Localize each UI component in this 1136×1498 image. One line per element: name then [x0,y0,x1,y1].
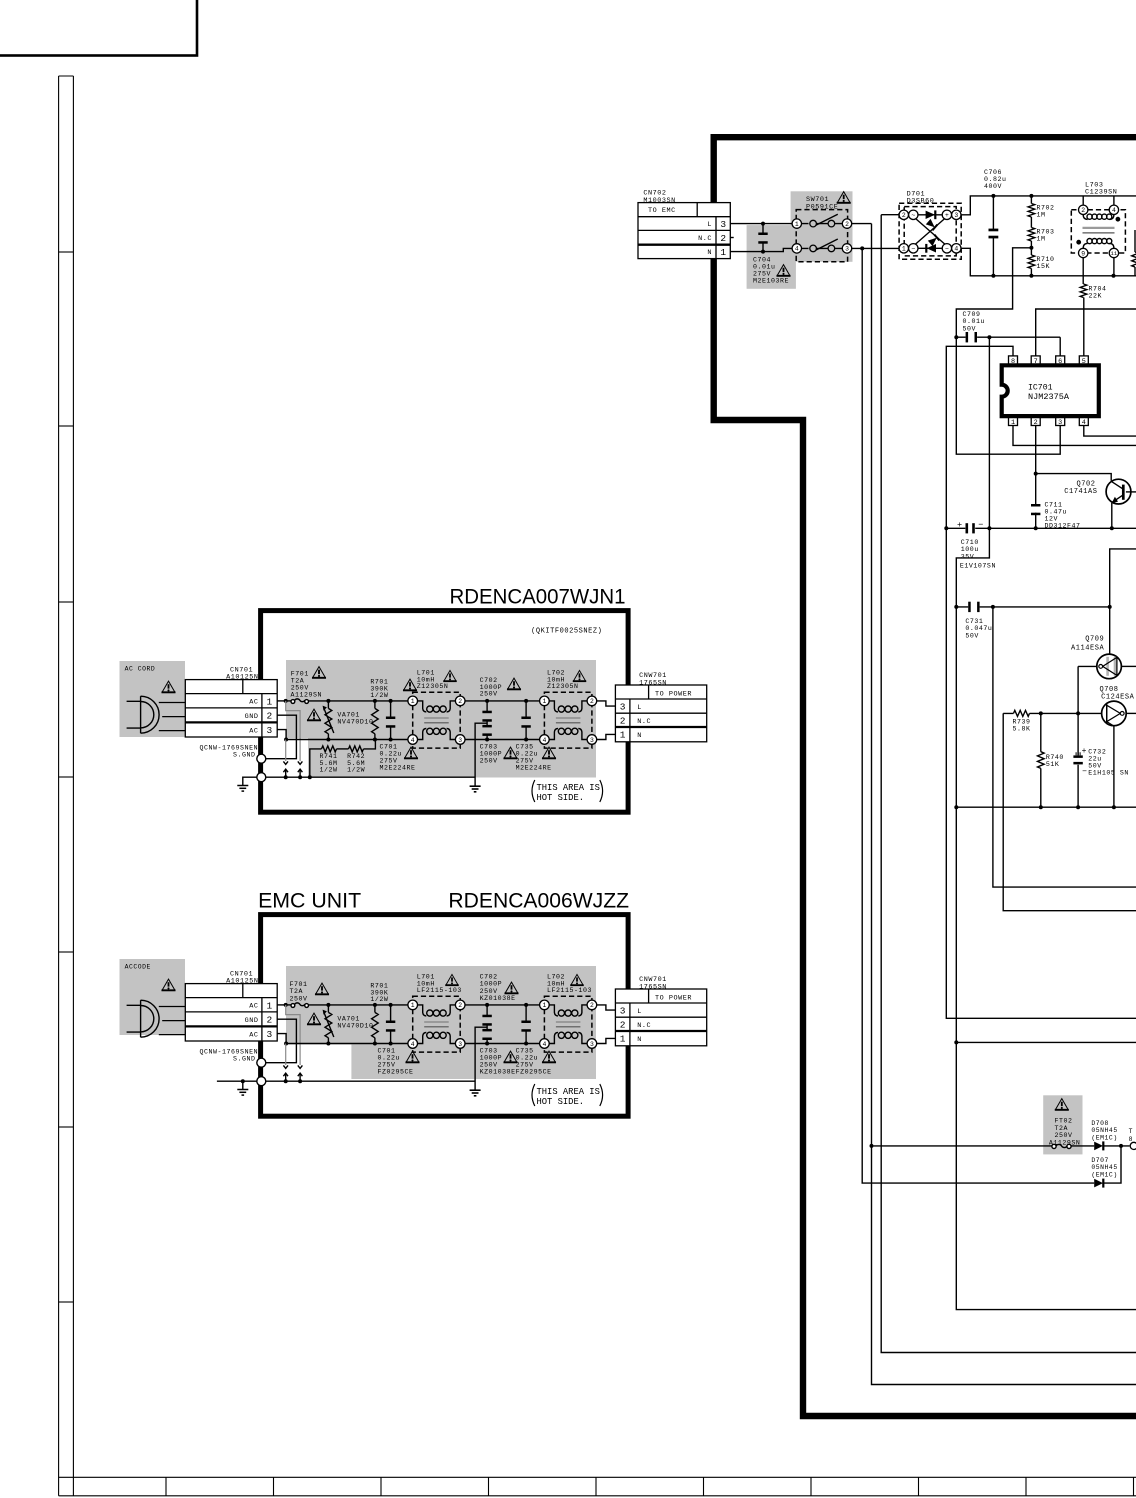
svg-text:FZ0295CE: FZ0295CE [378,1069,414,1076]
wire C704 leads [762,224,764,252]
svg-text:D707: D707 [1091,1157,1109,1164]
svg-text:GND: GND [245,1017,259,1025]
L702 pin 4 [540,735,550,745]
chassis ground symbol [237,786,248,792]
svg-text:8: 8 [1129,1136,1133,1143]
wire down to Q709 [1109,607,1111,654]
junction [1029,246,1033,250]
svg-text:1: 1 [620,730,626,741]
junction [1029,274,1033,278]
svg-text:N.C: N.C [637,1022,651,1030]
capacitor C706 [989,229,999,239]
svg-text:1/2W: 1/2W [320,767,338,774]
arrow up [283,769,288,772]
wire C709 right down [988,337,990,528]
unit border box [261,611,628,813]
SW701 pin 1 [792,219,801,228]
svg-text:1/2W: 1/2W [370,996,388,1003]
svg-text:THIS AREA IS: THIS AREA IS [537,783,600,793]
svg-text:50V: 50V [1088,763,1102,770]
IC U IC701 pin boxes bottom [1009,417,1018,427]
resistor R701 [372,1012,379,1037]
junction [485,1042,489,1046]
svg-text:R710: R710 [1037,256,1055,263]
svg-text:2: 2 [620,1020,626,1031]
svg-text:RDENCA006WJZZ: RDENCA006WJZZ [448,890,629,913]
warning symbol [570,974,583,985]
svg-text:1: 1 [902,246,906,253]
wire Q709 base down [1077,666,1079,713]
arrow down [283,761,288,764]
junction [524,1003,528,1007]
svg-text:1: 1 [542,1002,546,1009]
wire R741 left leg [310,749,322,777]
wire R701 leads [374,1005,376,1044]
junction [1112,805,1116,809]
wire V2 branch to edge [956,1041,1136,1043]
svg-text:R702: R702 [1037,205,1055,212]
junction [1108,605,1112,609]
junction [987,335,991,339]
svg-text:C701: C701 [378,1048,396,1055]
svg-text:4: 4 [411,737,415,744]
svg-text:275V: 275V [378,1062,396,1069]
chassis ground symbol (hot area) [470,786,481,792]
bottom ruler strip [59,1477,1136,1496]
SW701 contact circle [810,220,817,227]
resistor R740 [1038,752,1045,769]
L701 pin 4 [408,735,418,745]
svg-text:THIS AREA IS: THIS AREA IS [537,1087,600,1097]
warning symbol [542,747,556,758]
svg-text:TO POWER: TO POWER [655,690,692,698]
wire to FT02 [874,1145,1052,1147]
wire L703 top leads [1083,196,1114,205]
svg-text:N: N [707,249,712,257]
wire DC- rail [961,248,1136,275]
SW701 pin 3 [842,244,851,253]
svg-text:1: 1 [266,1000,272,1011]
svg-text:−: − [945,246,949,253]
svg-text:3: 3 [1058,419,1062,427]
svg-text:3: 3 [266,725,272,736]
L701 pin 2 [455,1000,465,1010]
svg-text:1: 1 [620,1034,626,1045]
warning symbol [404,747,418,758]
svg-text:05NH45: 05NH45 [1091,1164,1117,1171]
chassis ground symbol [237,1090,248,1096]
svg-text:TO EMC: TO EMC [648,207,676,215]
L702 pin 2 [587,696,597,706]
svg-text:1: 1 [411,698,415,705]
choke windings [418,1005,456,1044]
choke core [556,1021,581,1023]
warning symbol [307,709,321,720]
svg-text:L: L [637,704,642,712]
wire R742 right leg [364,740,376,749]
svg-text:275V: 275V [380,758,398,765]
resistor R703 [1028,228,1035,242]
svg-text:1: 1 [266,696,272,707]
L701 pin 3 [455,1039,465,1049]
wire DC+ rail [961,196,1136,215]
wire Q708 base rail [1003,712,1101,714]
svg-text:QCNW-1769SNEN: QCNW-1769SNEN [200,1048,259,1055]
wire to IC pin6 [1059,337,1061,356]
svg-text:0.82u: 0.82u [984,176,1007,183]
SW701 contact circle [828,245,835,252]
wire L702-2 to CNW701 [597,701,616,706]
choke core [424,717,449,719]
svg-text:P0591CE: P0591CE [806,203,838,211]
wire R701 leads [374,701,376,740]
svg-text:3: 3 [720,219,726,230]
wire Q702 emitter [1111,503,1113,529]
wire C735 leads [525,1005,527,1044]
svg-text:AC: AC [249,727,258,735]
wire hot N rail left [286,739,409,741]
junction [1034,526,1038,530]
L701 pin 4 [408,1039,418,1049]
AC cord gray box [120,959,186,1035]
wire VA701 leads [327,701,329,740]
wire CN701-3 to rail [277,730,286,740]
junction [524,738,528,742]
connector CN702 table [638,203,730,259]
wire C731 row [956,606,1109,608]
SW701 pin 4 [792,244,801,253]
L703 pin 4 [1109,205,1118,214]
junction [1076,805,1080,809]
wire hot N rail mid [465,739,540,741]
wire stub N.C [730,237,733,239]
L702 pin 2 [587,1000,597,1010]
junction [991,194,995,198]
svg-text:2: 2 [458,698,462,705]
label THIS AREA IS HOT SIDE [532,1084,535,1106]
resistor R7xx edge [1132,252,1136,267]
svg-text:C1239SN: C1239SN [1085,189,1117,197]
C704 gray highlight [747,225,796,289]
svg-text:FZ0295CE: FZ0295CE [516,1069,552,1076]
junction [373,738,377,742]
wire to C709 [956,248,1031,337]
wire L702-2 to CNW701 [597,1005,616,1010]
svg-text:C701: C701 [380,744,398,751]
svg-text:2: 2 [1081,207,1085,214]
wire right-edge lower [1134,267,1136,276]
varistor VA701 [325,708,332,733]
wire C709 nets [956,337,1060,454]
wire D707 up to node [1103,1146,1121,1183]
capacitor C711 [1031,504,1040,515]
svg-text:~: ~ [911,246,915,253]
warning symbol [403,679,417,690]
svg-text:C702: C702 [480,974,498,981]
wire D708 out [1103,1145,1129,1147]
svg-text:1M: 1M [1037,212,1046,219]
junction [326,1003,330,1007]
wire R741-R742 link [337,748,349,750]
AC plug symbol [127,1000,186,1037]
capacitor C701 [386,1021,395,1032]
FT02 gray highlight [1043,1095,1082,1154]
svg-text:LF2115-103: LF2115-103 [547,987,592,994]
svg-text:−: − [978,520,983,530]
wire bridge row links [908,215,942,249]
warning symbol [777,265,791,276]
diode D701 diagonal a [926,219,938,231]
wire CN701-2 to S.GND [266,715,297,759]
junction [991,605,995,609]
svg-text:N.C: N.C [698,235,712,243]
junction [761,250,765,254]
svg-text:C731: C731 [965,618,983,625]
junction [298,1079,302,1083]
svg-text:NJM2375A: NJM2375A [1028,393,1069,402]
choke windings [549,1005,587,1044]
wire Q708 emitter down [1113,726,1115,808]
junction [954,605,958,609]
L701 pin 2 [455,696,465,706]
L702 pin 4 [540,1039,550,1049]
unit gray hot-side panel [286,660,596,778]
svg-text:−: − [1082,768,1087,777]
L703 pin 11 [1109,248,1118,257]
unit gray hot-side panel [286,966,596,1079]
svg-text:C124ESA: C124ESA [1101,694,1135,702]
svg-text:2: 2 [845,221,849,228]
L703 pin 9 [1079,248,1088,257]
chassis ground symbol (hot area) [470,1090,481,1096]
junction [389,1042,393,1046]
connector CNW701 table [615,685,706,742]
wire hot L rail left [309,700,409,702]
svg-text:3: 3 [458,737,462,744]
svg-text:C703: C703 [480,1048,498,1055]
D701 pin 1 [899,244,908,253]
transistor Q709 (PNP digital) [1097,654,1122,679]
L703 polarity dot [1116,217,1121,222]
svg-text:3: 3 [620,1005,626,1016]
svg-text:ACCODE: ACCODE [125,963,151,970]
wire hot L rail mid [465,700,540,702]
svg-text:L: L [707,221,712,229]
svg-text:4: 4 [542,1041,546,1048]
junction [1110,526,1114,530]
resistor R710 [1028,255,1035,269]
wire CN701-1 to fuse [277,1004,291,1006]
warning symbol [445,974,458,985]
switch lever 2 [816,239,838,250]
choke L701 dashed box [413,692,461,748]
L701 pin 3 [455,735,465,745]
arrow down [298,761,303,764]
warning symbol [162,681,176,692]
junction [944,526,948,530]
svg-text:EMC UNIT: EMC UNIT [258,890,361,913]
svg-text:AC CORD: AC CORD [125,665,156,672]
svg-text:QCNW-1769SNEN: QCNW-1769SNEN [200,744,259,751]
wire 12V rail [946,527,1136,529]
wire L702-3 to CNW701 [597,1038,616,1043]
svg-text:+: + [945,212,949,219]
svg-text:N: N [637,1036,642,1044]
wire pin2 to Q702 [1036,474,1112,481]
wire gnd jog to C731 [956,528,989,807]
label THIS AREA IS HOT SIDE [532,780,535,802]
svg-text:M1003SN: M1003SN [643,197,675,205]
svg-text:0.01u: 0.01u [963,318,986,325]
fuse FT02 symbol [1052,1144,1071,1148]
svg-text:(QKITF0025SNEZ): (QKITF0025SNEZ) [531,628,602,636]
junction [987,526,991,530]
wire bus to D701-2 [881,215,1136,1353]
svg-text:0.22u: 0.22u [380,751,403,758]
resistor R739 [1014,710,1030,716]
wire L702-3 to CNW701 [597,734,616,739]
junction [870,1144,874,1148]
wire down nested rect 3 [1003,713,1136,910]
svg-text:S.GND: S.GND [233,752,256,759]
capacitor C732 (electrolytic) [1073,752,1082,764]
wire Q709 right [1121,665,1136,667]
wire V2 down / nested rect 2 [956,807,1136,1309]
svg-text:0.47u: 0.47u [1045,508,1068,515]
warning symbol [162,979,176,990]
svg-text:NV470D10: NV470D10 [337,1023,373,1030]
svg-text:T2A: T2A [1055,1125,1069,1132]
wire C706 leads [992,196,994,276]
svg-text:0.01u: 0.01u [753,264,776,271]
svg-text:R703: R703 [1037,229,1055,236]
warning symbol [507,678,521,689]
S.GND terminal circles [257,1058,266,1067]
main schematic border (hot side boundary) [714,137,1136,1416]
capacitor C710 (electrolytic) [966,523,975,533]
L703 primary winding [1083,214,1114,219]
choke L701 dashed box [413,996,461,1052]
junction [284,699,288,703]
svg-text:C1741AS: C1741AS [1064,488,1097,496]
wire S.GND rail [266,776,475,778]
resistor R702 [1028,204,1035,218]
wire lower rail [956,806,1136,808]
svg-text:HOT SIDE.: HOT SIDE. [537,793,585,803]
svg-text:1765SN: 1765SN [639,679,667,687]
wire L703 pin9 to R704 to pin5 [1082,258,1085,357]
svg-text:1/2W: 1/2W [370,692,388,699]
svg-text:C732: C732 [1088,749,1106,756]
svg-text:2: 2 [902,212,906,219]
capacitor C735 [521,717,530,728]
wire FT02 to D708 [1071,1145,1094,1147]
junction [1029,194,1033,198]
svg-text:4: 4 [954,246,958,253]
svg-text:M2E103RE: M2E103RE [753,278,789,285]
SW701 contact circle [828,220,835,227]
svg-text:250V: 250V [290,995,308,1002]
svg-text:+: + [1082,747,1087,756]
capacitor C702 [482,1015,491,1026]
svg-text:250V: 250V [1055,1132,1073,1139]
mating connector indication (gray) [286,701,300,761]
svg-text:250V: 250V [480,691,498,698]
svg-text:51K: 51K [1046,761,1060,768]
wire L (CN702-3 to SW701-1) [730,223,792,225]
wire C701 leads [390,701,392,740]
wire C735 leads [525,701,527,740]
svg-text:3: 3 [954,212,958,219]
svg-text:FT02: FT02 [1055,1118,1073,1125]
svg-text:275V: 275V [516,1062,534,1069]
svg-text:T2A: T2A [290,988,304,995]
wire to chassis ground [217,1081,257,1089]
capacitor C731 [968,602,979,612]
svg-text:3: 3 [590,1041,594,1048]
svg-text:A114ESA: A114ESA [1071,645,1105,653]
junction [389,699,393,703]
svg-text:1: 1 [720,247,726,258]
junction [1034,472,1038,476]
warning symbol [504,747,518,758]
transistor Q702 [1106,479,1136,504]
wire pin2 to C711 [1035,425,1037,506]
wire C702/C703 leads [486,701,488,740]
svg-text:(EM1C): (EM1C) [1091,1134,1117,1141]
svg-text:C711: C711 [1045,501,1063,508]
junction [298,775,302,779]
svg-text:F701: F701 [290,981,308,988]
junction [284,1079,288,1083]
choke core [556,717,581,719]
diode D701 top (2 to +) [926,211,935,219]
wire hot L rail left [309,1004,409,1006]
wire up to edge [1110,549,1136,607]
svg-text:KZ01038E: KZ01038E [480,995,516,1002]
junction [284,1042,288,1046]
svg-text:N.C: N.C [637,718,651,726]
svg-text:1765SN: 1765SN [639,983,667,991]
svg-text:C735: C735 [516,1048,534,1055]
svg-text:E1V107SN: E1V107SN [960,563,996,570]
L703 pin 2 [1079,205,1088,214]
transistor Q708 (NPN digital) [1102,701,1127,726]
wire CN701-2 to S.GND [266,1019,297,1062]
warning symbol [573,670,586,681]
D701 AC pin [909,244,918,253]
junction [761,222,765,226]
svg-text:D3SB60: D3SB60 [907,198,935,206]
svg-text:M2E224RE: M2E224RE [380,765,416,772]
svg-text:HOT SIDE.: HOT SIDE. [537,1097,585,1107]
svg-text:1000P: 1000P [480,751,503,758]
wire pin7 net [1036,309,1136,356]
svg-text:250V: 250V [480,988,498,995]
svg-text:0.22u: 0.22u [516,751,539,758]
L702 pin 1 [540,696,550,706]
SW701 pin 2 [842,219,851,228]
svg-text:50V: 50V [963,325,977,332]
arrow up [298,769,303,772]
wire right-edge [1134,230,1136,252]
svg-text:250V: 250V [480,1062,498,1069]
svg-text:AC: AC [249,1031,258,1039]
connector CN701 table [185,984,277,1041]
svg-text:275V: 275V [516,758,534,765]
junction [284,738,288,742]
svg-text:400V: 400V [984,183,1002,190]
